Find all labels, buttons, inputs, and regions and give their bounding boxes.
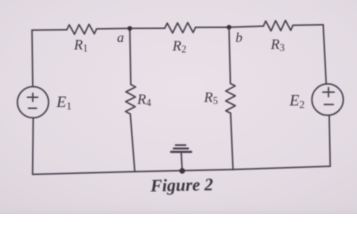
voltage source E2 bbox=[312, 84, 343, 115]
label R2 bbox=[172, 38, 187, 55]
ground bbox=[171, 145, 191, 171]
wire node a to R2 bbox=[130, 27, 165, 29]
resistor R3 bbox=[263, 20, 293, 31]
label E2 bbox=[289, 93, 305, 112]
label R3 bbox=[270, 37, 285, 54]
wire E2 to bottom-right corner bbox=[329, 115, 330, 166]
wire R2 to node b bbox=[196, 26, 230, 28]
label R5 bbox=[203, 90, 218, 107]
wire left side bottom up to E1 bbox=[32, 118, 35, 175]
wire right side down to E2 bbox=[323, 25, 326, 84]
wire R3 to top-right corner bbox=[293, 24, 323, 26]
wire node a down to R4 bbox=[130, 28, 131, 84]
wire R5 to bottom wire bbox=[231, 113, 233, 169]
resistor R5 bbox=[226, 84, 236, 114]
caption Figure 2 bbox=[149, 174, 213, 195]
label R1 bbox=[73, 37, 88, 54]
node label a bbox=[117, 31, 124, 46]
wire R1 to node a bbox=[97, 27, 130, 30]
ground junction dot bbox=[179, 168, 185, 174]
node label b bbox=[236, 31, 243, 46]
wire bottom middle segment bbox=[135, 170, 233, 172]
wire node b down to R5 bbox=[229, 27, 230, 83]
resistor R2 bbox=[165, 23, 196, 33]
voltage source E1 bbox=[17, 87, 48, 118]
svg-text:a: a bbox=[117, 31, 124, 46]
node b (junction dot) bbox=[227, 25, 232, 30]
wire R4 to bottom wire bbox=[130, 114, 135, 172]
label R4 bbox=[136, 92, 151, 109]
wire top-left to R1 bbox=[32, 29, 67, 31]
wire E1 to top-left corner bbox=[31, 30, 34, 87]
resistor R4 bbox=[126, 85, 136, 115]
resistor R1 bbox=[67, 24, 97, 34]
svg-text:Figure 2: Figure 2 bbox=[149, 174, 213, 195]
svg-text:b: b bbox=[236, 31, 243, 46]
wire bottom right segment bbox=[233, 166, 330, 169]
node a (junction dot) bbox=[128, 26, 133, 31]
label E1 bbox=[56, 94, 72, 113]
wire bottom left segment bbox=[33, 172, 135, 175]
wire node b to R3 bbox=[229, 26, 263, 27]
